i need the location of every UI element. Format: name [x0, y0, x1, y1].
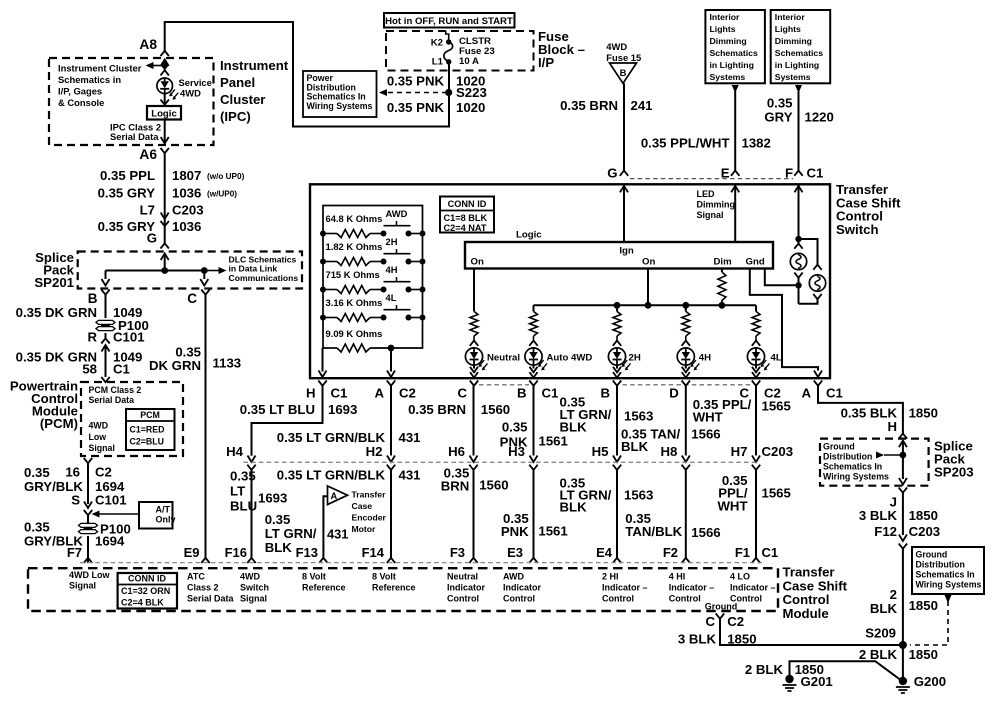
svg-text:1850: 1850 — [727, 632, 756, 647]
wire 4L LED to pin — [755, 365, 757, 368]
svg-text:SP203: SP203 — [934, 465, 974, 480]
svg-text:16: 16 — [65, 465, 80, 480]
svg-text:(w/o UP0): (w/o UP0) — [207, 172, 245, 181]
pin C bottom of switch — [752, 381, 760, 386]
connector G cup into SP201 — [161, 243, 169, 248]
svg-text:4H: 4H — [699, 353, 711, 364]
svg-text:C1: C1 — [542, 386, 559, 401]
svg-text:& Console: & Console — [58, 97, 104, 108]
wire 3 BLK 1850 to C203 F12 — [902, 493, 904, 535]
svg-text:Signal: Signal — [240, 594, 267, 604]
svg-text:H5: H5 — [592, 444, 609, 459]
wire On1 to neutral resistor — [473, 269, 475, 312]
wire A6 to G splice — [164, 153, 166, 243]
svg-text:C203: C203 — [172, 203, 204, 218]
node ladder output junction — [388, 345, 395, 352]
svg-text:Interior: Interior — [775, 12, 806, 22]
svg-text:0.35 LT GRN/BLK: 0.35 LT GRN/BLK — [277, 430, 386, 445]
svg-text:Control: Control — [602, 594, 634, 604]
connector cup above service LED — [161, 70, 169, 75]
svg-text:3.16 K Ohms: 3.16 K Ohms — [326, 297, 383, 308]
wire to service LED — [164, 66, 166, 71]
connector A6 cup — [161, 148, 169, 153]
svg-text:Schematics In: Schematics In — [823, 462, 882, 472]
svg-text:Communications: Communications — [229, 273, 299, 283]
svg-text:Ground: Ground — [705, 602, 738, 612]
svg-text:E4: E4 — [596, 545, 613, 560]
box Power Distribution Schematics In Wiring Systems — [303, 71, 377, 117]
svg-text:Schematics In: Schematics In — [916, 570, 975, 580]
svg-text:H: H — [306, 386, 316, 401]
svg-text:Signal: Signal — [89, 443, 115, 453]
svg-text:C2=4 BLK: C2=4 BLK — [121, 598, 164, 608]
wire On2 to LED bus — [647, 269, 649, 306]
pin A bottom of switch — [814, 381, 822, 386]
svg-text:A8: A8 — [139, 37, 157, 52]
svg-text:BLK: BLK — [560, 420, 588, 435]
wire lamp branch right — [799, 239, 818, 265]
svg-text:Low: Low — [89, 432, 107, 442]
svg-text:E9: E9 — [184, 545, 200, 560]
svg-text:Logic: Logic — [151, 109, 177, 120]
svg-text:F2: F2 — [663, 545, 678, 560]
box Logic in IPC — [147, 106, 181, 120]
svg-text:Reference: Reference — [302, 583, 346, 593]
resistor 2H LED — [613, 311, 621, 336]
connector E9 cup — [201, 558, 209, 563]
arrow below interior lights box 2 — [795, 85, 802, 93]
wire bus to Auto 4WD resistor — [533, 305, 535, 311]
svg-text:Dimming: Dimming — [775, 36, 812, 46]
svg-text:Only: Only — [156, 515, 176, 525]
svg-text:Neutral: Neutral — [487, 353, 520, 364]
svg-text:C1: C1 — [762, 545, 779, 560]
svg-text:1036: 1036 — [172, 186, 201, 201]
wire D to H8 — [685, 386, 687, 456]
wire PCM to C101 lower — [87, 463, 89, 504]
svg-text:Service: Service — [179, 77, 212, 88]
svg-text:0.35: 0.35 — [767, 96, 793, 111]
svg-text:(IPC): (IPC) — [220, 109, 251, 124]
connector cup lamp 1 — [794, 244, 802, 249]
svg-text:4L: 4L — [771, 353, 782, 364]
svg-text:A: A — [801, 386, 811, 401]
svg-text:0.35: 0.35 — [502, 420, 528, 435]
svg-text:Transfer: Transfer — [352, 490, 387, 500]
pin C bottom of switch — [470, 381, 478, 386]
svg-text:G201: G201 — [801, 674, 833, 689]
svg-text:S: S — [71, 493, 80, 508]
svg-text:Indicator –: Indicator – — [669, 583, 715, 593]
svg-text:Systems: Systems — [775, 72, 811, 82]
wire H2 to F14 — [390, 470, 392, 558]
svg-text:1693: 1693 — [328, 402, 357, 417]
transfer case shift control switch box — [310, 184, 830, 378]
svg-text:C203: C203 — [762, 444, 794, 459]
svg-text:2 BLK: 2 BLK — [859, 647, 898, 662]
svg-text:0.35 PPL: 0.35 PPL — [100, 168, 155, 183]
svg-text:2: 2 — [890, 587, 897, 602]
svg-text:Wiring Systems: Wiring Systems — [916, 580, 982, 590]
inline connector C203 dashed line — [244, 461, 758, 463]
LED Neutral — [465, 348, 482, 365]
svg-text:H7: H7 — [731, 444, 748, 459]
interior lights dimming box 1 — [705, 10, 765, 83]
powertrain control module PCM dashed box — [81, 382, 183, 456]
svg-text:F3: F3 — [450, 545, 465, 560]
svg-text:1694: 1694 — [95, 534, 125, 549]
wire H6 to F3 — [473, 470, 475, 558]
connector cup below SP203 — [899, 488, 907, 493]
svg-text:10 A: 10 A — [459, 56, 479, 67]
svg-text:1563: 1563 — [624, 488, 653, 503]
svg-text:F14: F14 — [362, 545, 385, 560]
svg-text:1566: 1566 — [691, 525, 720, 540]
pin A bottom of switch — [387, 381, 395, 386]
svg-text:4 LO: 4 LO — [730, 572, 750, 582]
svg-text:CONN ID: CONN ID — [128, 574, 167, 584]
fuse CLSTR Fuse 23 10A — [446, 31, 449, 42]
svg-text:A: A — [331, 490, 338, 501]
svg-text:0.35: 0.35 — [24, 465, 50, 480]
svg-text:C: C — [457, 386, 467, 401]
wire H7 to F1 — [755, 470, 757, 558]
svg-text:1566: 1566 — [691, 427, 720, 442]
svg-text:Serial Data: Serial Data — [110, 131, 159, 142]
wire P100 to F7 — [87, 536, 89, 563]
svg-text:1133: 1133 — [213, 356, 242, 371]
svg-text:1382: 1382 — [742, 136, 771, 151]
svg-text:Schematics in: Schematics in — [58, 74, 121, 85]
svg-text:Transfer: Transfer — [783, 565, 835, 580]
svg-text:I/P, Gages: I/P, Gages — [58, 86, 102, 97]
connector face dashed line C1 top — [630, 178, 793, 180]
svg-text:58: 58 — [82, 362, 97, 377]
svg-text:3 BLK: 3 BLK — [859, 508, 898, 523]
svg-text:C2: C2 — [727, 614, 744, 629]
svg-text:WHT: WHT — [693, 410, 723, 425]
svg-text:Serial Data: Serial Data — [187, 594, 235, 604]
wire 3 BLK 1850 to S209 — [720, 619, 900, 645]
svg-text:C1: C1 — [826, 386, 843, 401]
svg-text:ATC: ATC — [187, 572, 205, 582]
svg-text:0.35 LT GRN/BLK: 0.35 LT GRN/BLK — [277, 468, 386, 483]
svg-text:H4: H4 — [226, 444, 244, 459]
svg-text:1565: 1565 — [762, 399, 791, 414]
svg-text:Instrument Cluster: Instrument Cluster — [58, 63, 142, 74]
wire A8 to fuse block (top route) — [165, 22, 449, 127]
svg-text:WHT: WHT — [717, 499, 747, 514]
lamp network junction from F — [798, 239, 800, 244]
svg-text:BLK: BLK — [870, 601, 898, 616]
svg-text:C2=BLU: C2=BLU — [130, 437, 164, 447]
box Ground Distribution Schematics In Wiring Systems right — [912, 547, 984, 594]
svg-text:L1: L1 — [432, 57, 444, 68]
svg-text:TAN/BLK: TAN/BLK — [625, 524, 682, 539]
connector C cup below SP201 — [201, 290, 209, 295]
wire SP201 internal bus — [164, 254, 166, 271]
wire Gnd to pin A C1 — [750, 269, 818, 371]
svg-text:C: C — [187, 291, 197, 306]
svg-text:K2: K2 — [431, 38, 443, 49]
svg-text:2 BLK: 2 BLK — [745, 662, 784, 677]
svg-text:1020: 1020 — [456, 100, 485, 115]
svg-text:H: H — [887, 419, 897, 434]
svg-text:F7: F7 — [67, 545, 82, 560]
arrow below interior lights box 1 — [732, 85, 739, 93]
svg-text:F: F — [785, 166, 793, 181]
svg-text:Reference: Reference — [372, 583, 416, 593]
svg-text:Serial Data: Serial Data — [89, 395, 135, 405]
svg-text:1565: 1565 — [762, 486, 791, 501]
wire B to P100 — [105, 295, 107, 318]
svg-text:431: 431 — [399, 430, 421, 445]
resistor neutral LED — [470, 311, 478, 336]
svg-text:Wiring Systems: Wiring Systems — [823, 472, 889, 482]
svg-text:0.35 DK GRN: 0.35 DK GRN — [16, 305, 97, 320]
wire H8 to F2 — [685, 470, 687, 558]
wire logic to A6 pin — [164, 120, 166, 144]
svg-text:C2: C2 — [95, 465, 112, 480]
box PCM CONN ID — [126, 409, 175, 450]
dashed wire ground distribution to S209 — [910, 601, 948, 645]
svg-text:GRY: GRY — [764, 110, 792, 125]
svg-text:Ign: Ign — [619, 246, 634, 257]
svg-text:AWD: AWD — [386, 208, 408, 219]
svg-text:PNK: PNK — [501, 524, 529, 539]
svg-text:3 BLK: 3 BLK — [678, 632, 717, 647]
box logic switch — [465, 242, 773, 269]
svg-text:1036: 1036 — [172, 219, 201, 234]
svg-text:BLK: BLK — [560, 500, 588, 515]
resistor 4L LED — [752, 311, 760, 336]
wire A C1 to SP203 — [818, 386, 903, 434]
svg-text:C1=RED: C1=RED — [130, 425, 165, 435]
arrow A/T Only to wire — [99, 513, 139, 515]
svg-text:64.8 K Ohms: 64.8 K Ohms — [326, 213, 383, 224]
svg-text:Encoder: Encoder — [352, 513, 387, 523]
resistor 4H LED — [682, 311, 690, 336]
svg-text:Hot in OFF, RUN and START: Hot in OFF, RUN and START — [385, 16, 513, 27]
svg-text:Module: Module — [783, 606, 829, 621]
svg-text:Wiring Systems: Wiring Systems — [307, 101, 373, 111]
svg-text:2 HI: 2 HI — [602, 572, 619, 582]
svg-text:Cluster: Cluster — [220, 92, 265, 107]
wire P100 to C101 — [105, 333, 107, 338]
wire S209 to G200 — [902, 645, 904, 678]
arrow entering SP201 — [161, 254, 169, 261]
svg-text:Instrument: Instrument — [220, 58, 289, 73]
wire H5 to E4 — [616, 470, 618, 558]
svg-text:1850: 1850 — [909, 406, 938, 421]
svg-text:G: G — [607, 166, 617, 181]
svg-text:1561: 1561 — [538, 524, 567, 539]
fuse block I/P dashed box — [386, 31, 534, 71]
svg-text:Schematics: Schematics — [710, 48, 758, 58]
module connector face dashed line — [80, 562, 762, 564]
svg-text:0.35 PNK: 0.35 PNK — [387, 100, 445, 115]
svg-text:4WD Low: 4WD Low — [69, 570, 110, 580]
svg-text:C2=4 NAT: C2=4 NAT — [444, 223, 487, 233]
svg-text:Gnd: Gnd — [746, 257, 765, 268]
svg-text:DK GRN: DK GRN — [149, 358, 201, 373]
svg-text:0.35: 0.35 — [230, 469, 256, 484]
grommet P100 upper — [96, 320, 115, 324]
connector arrow into IPC — [161, 60, 169, 67]
lamp illumination 1 — [790, 253, 806, 269]
wire LED to Logic box — [164, 94, 166, 106]
svg-text:4WD: 4WD — [240, 572, 261, 582]
svg-text:in Lighting: in Lighting — [710, 60, 754, 70]
fuse 15 triangle symbol B — [610, 63, 637, 83]
svg-text:Schematics: Schematics — [775, 48, 823, 58]
wire bus to 4H resistor — [685, 305, 687, 311]
svg-text:Lights: Lights — [775, 24, 801, 34]
svg-text:0.35 PNK: 0.35 PNK — [387, 74, 445, 89]
svg-text:E3: E3 — [507, 545, 523, 560]
svg-text:Case: Case — [352, 501, 373, 511]
pin H bottom of switch — [318, 381, 326, 386]
svg-text:BLU: BLU — [230, 499, 257, 514]
wire 2H LED to pin — [616, 365, 618, 368]
svg-text:F16: F16 — [225, 545, 247, 560]
svg-text:Indicator: Indicator — [503, 583, 542, 593]
pin D bottom of switch — [682, 381, 690, 386]
wire ladder junction to pin A — [390, 348, 392, 372]
svg-text:On: On — [471, 257, 484, 268]
LED power bus — [534, 304, 757, 306]
connector F7 cup — [84, 558, 92, 563]
connector face dashed C1 bottom left — [479, 384, 529, 386]
svg-text:On: On — [642, 257, 655, 268]
svg-text:0.35: 0.35 — [24, 520, 50, 535]
svg-text:4 HI: 4 HI — [669, 572, 686, 582]
wire SP201 branch C — [203, 271, 205, 280]
svg-text:431: 431 — [399, 468, 421, 483]
svg-text:9.09 K Ohms: 9.09 K Ohms — [326, 328, 383, 339]
svg-text:0.35 BRN: 0.35 BRN — [560, 98, 618, 113]
svg-text:0.35: 0.35 — [265, 512, 291, 527]
svg-text:AWD: AWD — [503, 572, 524, 582]
wire 0.35 BRN 241 fuse to G pin — [623, 83, 625, 170]
wire C101 to PCM — [105, 345, 107, 377]
svg-text:G200: G200 — [914, 674, 946, 689]
wire lamp1 bottom — [794, 273, 802, 278]
svg-text:CONN ID: CONN ID — [448, 199, 487, 209]
svg-text:1693: 1693 — [258, 491, 287, 506]
svg-text:I/P: I/P — [538, 55, 554, 70]
grommet P100 lower — [79, 523, 98, 527]
wire C to H6 — [473, 386, 475, 456]
LED 4L — [747, 348, 764, 365]
wire neutral LED to pin C — [473, 365, 475, 368]
LED 2H — [608, 348, 625, 365]
wire C C2 to H7 — [755, 386, 757, 456]
splice S209 — [899, 641, 907, 649]
connector A8 female cup — [161, 51, 169, 56]
svg-text:BLK: BLK — [621, 439, 649, 454]
svg-text:LT: LT — [230, 484, 245, 499]
wire Gnd to lamp return — [765, 269, 799, 286]
svg-text:Motor: Motor — [352, 524, 377, 534]
svg-text:S209: S209 — [865, 626, 896, 641]
svg-text:BLK: BLK — [265, 540, 293, 555]
svg-text:H6: H6 — [448, 444, 465, 459]
svg-text:0.35 PPL/WHT: 0.35 PPL/WHT — [641, 136, 730, 151]
wire H4 to F16 — [251, 470, 253, 558]
wire Dim resistor — [721, 269, 723, 273]
svg-text:1807: 1807 — [172, 168, 201, 183]
svg-text:B: B — [88, 291, 98, 306]
wire ladder left rail to pin H — [322, 348, 324, 372]
svg-text:1850: 1850 — [909, 598, 938, 613]
svg-text:G: G — [147, 231, 157, 246]
svg-text:Indicator –: Indicator – — [602, 583, 648, 593]
pin B bottom of switch — [613, 381, 621, 386]
svg-text:1563: 1563 — [624, 409, 653, 424]
connector face dashed C2 bottom right — [623, 384, 751, 386]
svg-text:2H: 2H — [629, 353, 641, 364]
svg-text:Switch: Switch — [836, 222, 879, 237]
node junction with left arrow — [162, 62, 168, 68]
svg-text:241: 241 — [631, 98, 653, 113]
svg-text:PCM: PCM — [140, 410, 160, 420]
LED 4H — [677, 348, 694, 365]
wire bus to 4L resistor — [755, 305, 757, 311]
svg-text:C101: C101 — [113, 330, 145, 345]
svg-text:C203: C203 — [909, 524, 941, 539]
svg-text:LT GRN/: LT GRN/ — [265, 526, 317, 541]
arrow inside SP203 — [899, 441, 907, 448]
svg-text:0.35 LT BLU: 0.35 LT BLU — [240, 402, 315, 417]
svg-text:R: R — [87, 330, 97, 345]
svg-text:Dimming: Dimming — [710, 36, 747, 46]
svg-text:Distribution: Distribution — [823, 452, 872, 462]
svg-text:Distribution: Distribution — [916, 560, 965, 570]
svg-text:L7: L7 — [140, 203, 155, 218]
pin C C2 ground below module — [716, 614, 724, 619]
wire B C1 to H3 — [533, 386, 535, 456]
svg-text:BRN: BRN — [441, 479, 470, 494]
svg-text:Control: Control — [503, 594, 535, 604]
svg-text:in Lighting: in Lighting — [775, 60, 819, 70]
transfer case shift control module dashed box — [28, 568, 778, 611]
wire lamp2 bottom — [813, 294, 821, 299]
splice pack SP203 dashed box — [820, 439, 929, 486]
wire H C1 to H4 — [252, 386, 323, 456]
svg-text:Lights: Lights — [710, 24, 736, 34]
svg-text:431: 431 — [327, 527, 348, 542]
svg-text:C1=8 BLK: C1=8 BLK — [444, 213, 488, 223]
svg-text:C101: C101 — [95, 493, 127, 508]
wire bus to 2H resistor — [616, 305, 618, 311]
ground G200 — [899, 677, 907, 685]
box CONN ID switch — [440, 197, 494, 233]
svg-text:SP201: SP201 — [34, 275, 74, 290]
svg-text:D: D — [669, 386, 679, 401]
connector cup neutral LED — [470, 341, 478, 346]
svg-text:8 Volt: 8 Volt — [302, 572, 326, 582]
LED Service 4WD indicator — [157, 78, 173, 94]
svg-text:Dimming: Dimming — [697, 200, 736, 210]
svg-text:1220: 1220 — [805, 110, 834, 125]
svg-text:Signal: Signal — [697, 210, 724, 220]
wire to G201 — [790, 661, 901, 679]
svg-text:Systems: Systems — [710, 72, 746, 82]
svg-text:A/T: A/T — [156, 505, 171, 515]
svg-text:Control: Control — [669, 594, 701, 604]
splice pack SP201 dashed box — [78, 252, 302, 289]
